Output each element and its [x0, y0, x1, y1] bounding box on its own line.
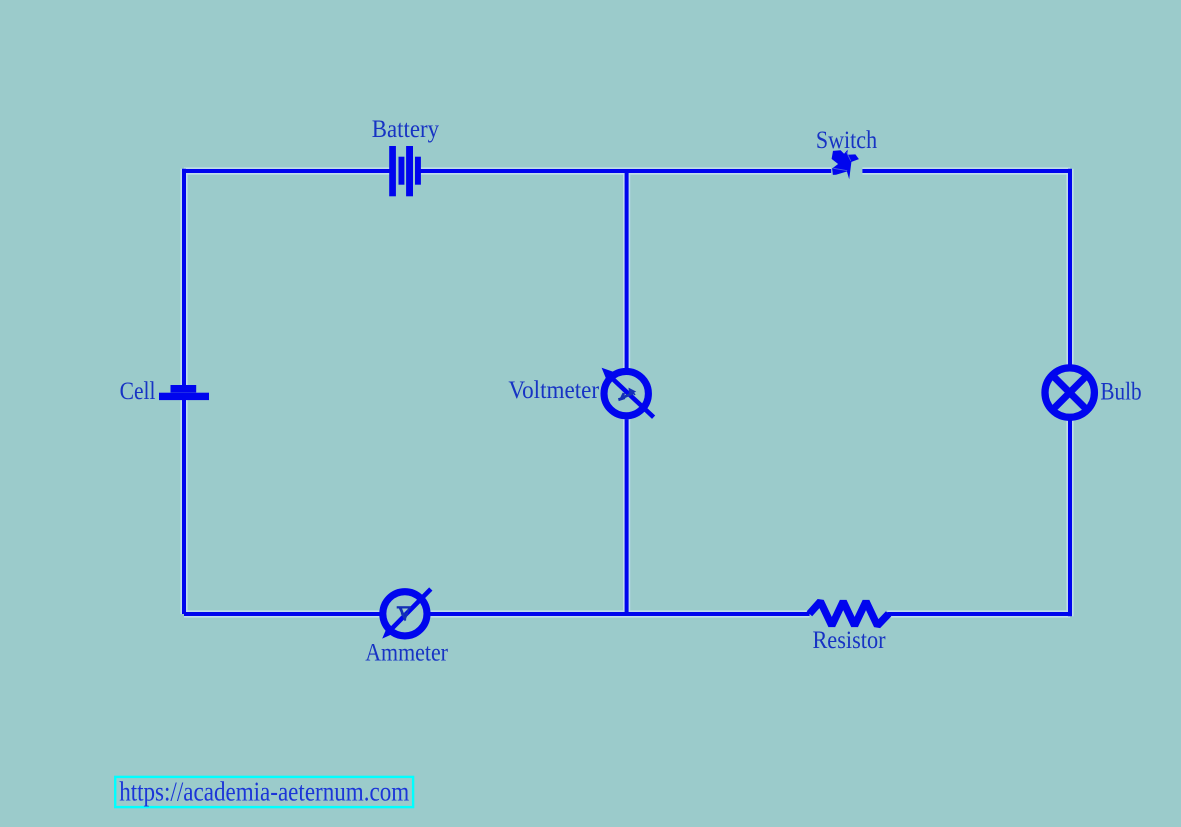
needle [608, 375, 654, 418]
wire bottom-mid (ammeter to resistor, through bottom node) [430, 612, 809, 616]
svg-text:Ammeter: Ammeter [365, 640, 448, 667]
wire middle upper (top node to voltmeter) [625, 171, 629, 368]
svg-text:https://academia-aeternum.com: https://academia-aeternum.com [119, 776, 409, 807]
wire right upper (top-right corner to bulb) [1068, 169, 1072, 366]
switch (lever blob) [832, 150, 859, 180]
needle [389, 589, 431, 632]
needle arrowhead [382, 627, 393, 639]
wire top-right (switch to top-right corner) [862, 169, 1070, 173]
wire top-left (cell top node to battery) [184, 169, 390, 173]
wire left lower (cell to bottom-left corner) [182, 400, 186, 614]
wire bottom-left (bottom-left corner to ammeter) [184, 612, 380, 616]
cell (short plate over long plate) [159, 385, 209, 400]
svg-text:Battery: Battery [372, 116, 440, 143]
battery (4 plates) [389, 146, 421, 196]
ammeter U (circle + needle + A) [382, 589, 431, 639]
wire bottom-right (resistor to bottom-right corner) [887, 612, 1070, 616]
wire right lower (bulb to bottom-right corner) [1068, 420, 1072, 616]
wire middle lower (voltmeter to bottom node) [625, 419, 629, 614]
bulb (circle with X) [1045, 368, 1094, 417]
needle arrowhead [602, 368, 614, 380]
svg-text:Switch: Switch [816, 127, 878, 154]
url box [115, 777, 413, 807]
letter V (rotated) [618, 388, 636, 402]
svg-text:Bulb: Bulb [1100, 378, 1141, 405]
wire left (top-left corner down to cell) [182, 169, 186, 385]
resistor (zigzag) [809, 602, 888, 626]
letter A (inverted) [397, 606, 411, 621]
voltmeter U (circle + needle + V) [602, 368, 654, 418]
svg-text:Cell: Cell [120, 378, 156, 405]
wire halo underlay [184, 169, 1070, 616]
wire top-mid (battery to switch, through node at middle branch) [421, 169, 832, 173]
svg-text:Voltmeter: Voltmeter [508, 377, 599, 404]
svg-text:Resistor: Resistor [812, 627, 886, 654]
